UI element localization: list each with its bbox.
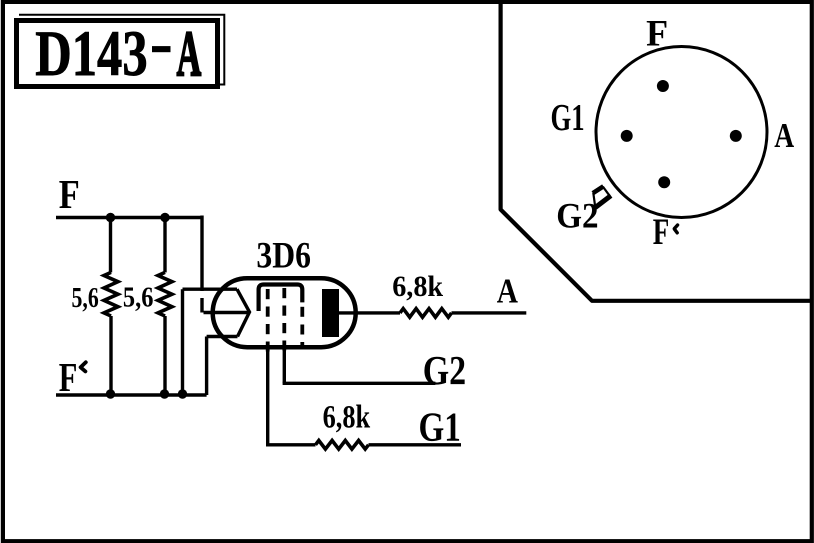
svg-text:A: A <box>497 272 519 311</box>
svg-text:F: F <box>59 354 78 400</box>
svg-text:3D6: 3D6 <box>256 235 311 276</box>
svg-text:G2: G2 <box>556 196 598 236</box>
svg-text:G2: G2 <box>423 347 466 393</box>
svg-text:6,8k: 6,8k <box>392 270 443 303</box>
svg-text:F: F <box>653 212 670 253</box>
svg-text:5,6: 5,6 <box>123 282 153 314</box>
svg-text:G1: G1 <box>419 403 461 449</box>
svg-text:F: F <box>646 13 668 54</box>
svg-text:6,8k: 6,8k <box>323 400 371 436</box>
svg-text:A: A <box>774 116 794 155</box>
svg-text:5,6: 5,6 <box>72 282 99 314</box>
svg-text:F: F <box>59 171 80 217</box>
svg-text:G1: G1 <box>551 97 585 139</box>
svg-text:A: A <box>177 18 202 90</box>
svg-text:D143: D143 <box>35 18 147 90</box>
